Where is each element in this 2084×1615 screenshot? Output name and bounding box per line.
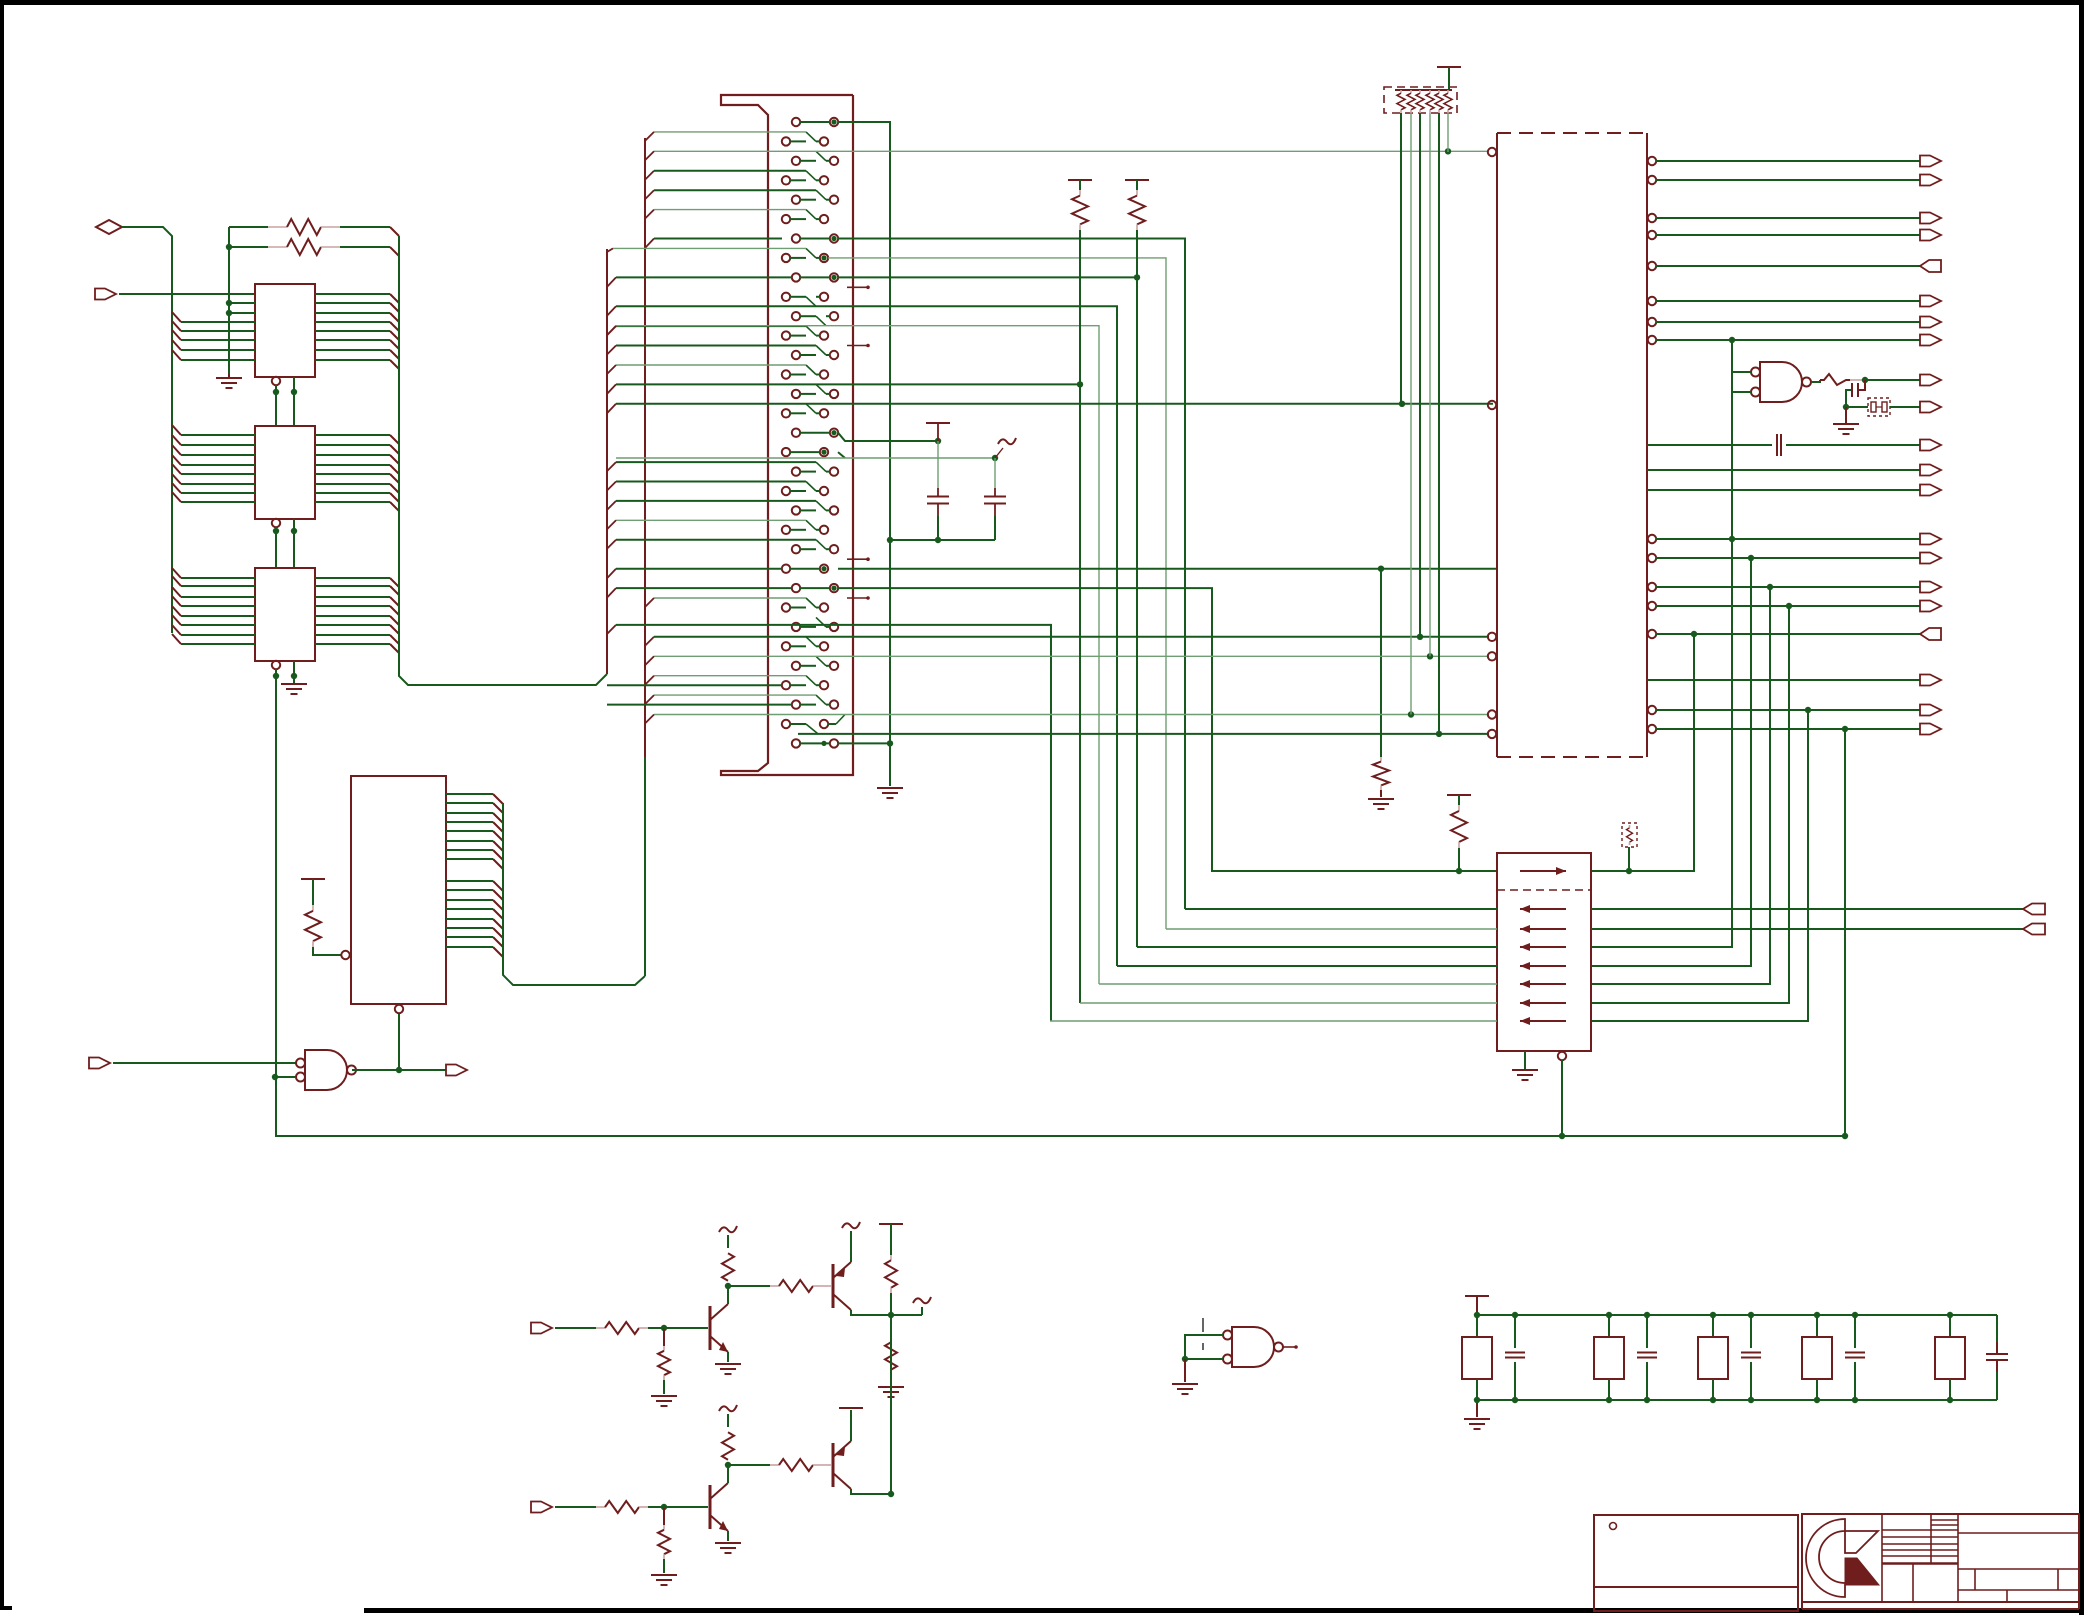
RP1 resistor 2 bbox=[1410, 90, 1412, 93]
keyboard switch S26 bbox=[782, 603, 790, 611]
row 25 straight long wire to buffer top via x1212 bbox=[616, 587, 792, 589]
flag y=180 bbox=[1920, 175, 1941, 186]
flag y=558 bbox=[1920, 553, 1941, 564]
bus entry diagonal bbox=[607, 501, 616, 510]
series resistor bbox=[555, 1327, 596, 1329]
buffer U6 box bbox=[1497, 853, 1591, 1051]
row wire k9 below to x1117 bbox=[616, 306, 1117, 966]
flag y=680 bbox=[1920, 675, 1941, 686]
pull-up resistor R20 bbox=[301, 878, 325, 880]
RP1 line 5 down bbox=[1438, 113, 1440, 734]
flag y=539 bbox=[1920, 534, 1941, 545]
row wire bbox=[654, 694, 816, 696]
bus entry diagonal bbox=[607, 462, 616, 471]
U5 output wire y=322 bbox=[1648, 318, 1656, 326]
wire to NPN base bbox=[664, 1506, 708, 1508]
NAND gate G2 bbox=[1760, 362, 1802, 402]
row wire bbox=[654, 675, 806, 677]
capacitor CB4 bbox=[1854, 1315, 1856, 1348]
no-connect stub C bbox=[847, 558, 868, 560]
RP1 line 2 down bbox=[1410, 113, 1412, 715]
IC U3 bbox=[255, 568, 315, 661]
wire row 33 to vertical x890 bbox=[838, 742, 890, 744]
input flag bbox=[531, 1323, 552, 1334]
row wire KBD (k2) long light to U5 pin bbox=[654, 150, 1489, 152]
vertical x1845 to long bottom wire bbox=[1844, 729, 1846, 1136]
U6 arrow 3 (left) bbox=[1520, 946, 1566, 948]
keyboard switch S20 bbox=[782, 487, 790, 495]
flag CNT bbox=[1920, 375, 1941, 386]
electrolytic capacitor CE2 bbox=[1608, 1315, 1610, 1337]
vertical x1808 to buffer bbox=[1591, 710, 1808, 1021]
keyboard switch S3 bbox=[792, 157, 800, 165]
capacitor C1 bbox=[937, 441, 939, 488]
series resistor bbox=[555, 1506, 596, 1508]
bus entry diagonal bbox=[645, 190, 654, 199]
resistor R_A (top) bbox=[229, 226, 268, 228]
ground bbox=[651, 1395, 677, 1397]
G3 ground bbox=[1184, 1359, 1186, 1382]
keyboard switch S14 bbox=[782, 370, 790, 378]
off-page connector P1 (diamond) bbox=[96, 220, 122, 234]
U3 bottom pins bbox=[272, 661, 280, 669]
keyboard switch S10 bbox=[782, 293, 790, 301]
keyboard switch S11 bbox=[792, 312, 800, 320]
bus entry R_A bbox=[390, 227, 399, 236]
ground bbox=[651, 1574, 677, 1576]
crystal Y1 bbox=[1868, 398, 1890, 416]
ground GND5 bbox=[1845, 407, 1847, 424]
keyboard switch S31 bbox=[792, 700, 800, 708]
electrolytic capacitor CE5 bbox=[1949, 1315, 1951, 1337]
U6 arrow 2 (left) bbox=[1520, 928, 1566, 930]
U4 right pin wires to bus bbox=[446, 793, 493, 795]
IC U2 bbox=[255, 426, 315, 519]
wire NAND G1 input 2 bbox=[272, 1074, 278, 1080]
flag y=490 bbox=[1920, 485, 1941, 496]
RP1 resistor 4 bbox=[1429, 90, 1431, 93]
ground GND1 bbox=[228, 374, 230, 378]
keyboard switch S24 bbox=[782, 565, 790, 573]
bus entry diagonal bbox=[645, 598, 654, 607]
keyboard switch S17 bbox=[792, 429, 800, 437]
flag y=266 bbox=[1920, 260, 1941, 272]
keyboard switch S27 bbox=[792, 623, 800, 631]
flag y=218 bbox=[1920, 213, 1941, 224]
bus entry diagonal bbox=[607, 540, 616, 549]
row wire bbox=[616, 364, 806, 366]
keyboard switch S28 bbox=[782, 642, 790, 650]
U6 dashed divider bbox=[1497, 889, 1591, 891]
collector resistor to power bbox=[727, 1465, 729, 1483]
keyboard switch S2 bbox=[782, 137, 790, 145]
U6 arrow 4 (left) bbox=[1520, 965, 1566, 967]
electrolytic capacitor CE3 bbox=[1712, 1315, 1714, 1337]
keyboard switch S18 bbox=[782, 448, 790, 456]
row wire bbox=[654, 209, 806, 211]
G3 output stub bbox=[1283, 1346, 1296, 1348]
page border left bbox=[0, 0, 4, 1610]
U5 output wire y=587 bbox=[1648, 583, 1656, 591]
RP1 top bus bbox=[1395, 89, 1452, 91]
keyboard switch S9 bbox=[792, 273, 800, 281]
wire row 17 to cap C1 bbox=[838, 433, 938, 441]
row wire bbox=[616, 461, 816, 463]
wire NAND G2 input 2 bbox=[1732, 391, 1751, 393]
capacitor C3 (series) bbox=[1776, 434, 1778, 456]
keyboard switch S5 bbox=[792, 196, 800, 204]
row wire k14 above to R22 junction bbox=[616, 383, 1080, 385]
flag y=235 bbox=[1920, 230, 1941, 241]
coupling resistor to PNP base bbox=[728, 1285, 770, 1287]
power T above cap C1 bbox=[926, 422, 950, 424]
wire to NPN base bbox=[664, 1327, 708, 1329]
U5 output wire y=218 bbox=[1648, 214, 1656, 222]
U6 arrow 7 (left) bbox=[1520, 1020, 1566, 1022]
U5 output wire y=710 bbox=[1648, 706, 1656, 714]
emitter to ground bbox=[727, 1531, 729, 1541]
wire U5 to NAND G2 input 1 bbox=[1732, 340, 1751, 372]
bus entry diagonal bbox=[645, 676, 654, 685]
U6 arrow 1 (left) bbox=[1520, 908, 1566, 910]
vertical x1694 to buffer direction pin bbox=[1591, 634, 1694, 871]
U2 right pin wires to bus bbox=[315, 434, 390, 436]
flag JOYA0 bbox=[2023, 904, 2045, 915]
lower resistor to ground at output node bbox=[890, 1315, 892, 1337]
U5 left pin wires (pull-up rows) bbox=[654, 636, 1489, 638]
keyboard switch S33 bbox=[792, 739, 800, 747]
keyboard switch S7 bbox=[792, 234, 800, 242]
cap bank ground bbox=[1476, 1400, 1478, 1417]
left feed wires for lower switches bbox=[607, 684, 782, 686]
Commodore logo bbox=[1806, 1519, 1845, 1597]
keyboard switch S22 bbox=[782, 526, 790, 534]
PNP emitter to power T bbox=[850, 1410, 852, 1441]
RP1 resistor 3 bbox=[1419, 90, 1421, 93]
flag y=710 bbox=[1920, 705, 1941, 716]
cap bank top rail bbox=[1477, 1314, 1997, 1316]
row wire bbox=[654, 170, 806, 172]
keyboard switch S13 bbox=[792, 351, 800, 359]
RP1 line 1 down bbox=[1400, 113, 1402, 405]
bus entry diagonal bbox=[607, 482, 616, 491]
capacitor C4 bbox=[1859, 380, 1865, 390]
ground bbox=[878, 1386, 904, 1388]
U5 output wire y=606 bbox=[1648, 602, 1656, 610]
page border right bbox=[2079, 0, 2084, 1615]
vertical x1732 (NAND feed / buffer) bbox=[1591, 340, 1732, 947]
wire row 1 to ground via vertical x890 bbox=[838, 122, 890, 786]
vertical x1751 to buffer bbox=[1591, 558, 1751, 966]
U2 bottom pins to U3 bbox=[272, 519, 280, 527]
bus entry diagonal bbox=[645, 171, 654, 180]
resistor pack RP1 dashed box bbox=[1384, 87, 1457, 113]
bus entry diagonal bbox=[607, 326, 616, 335]
bus entry diagonal bbox=[607, 365, 616, 374]
flag y=606 bbox=[1920, 601, 1941, 612]
U5 output wire y=729 bbox=[1648, 725, 1656, 733]
row 8 switch row wire from bus A top corner bbox=[607, 248, 613, 252]
U1 bottom pins to U2 bbox=[272, 377, 280, 385]
bus entry R_B bbox=[390, 247, 399, 256]
U5 output wire y=161 bbox=[1648, 157, 1656, 165]
upper resistor to T at output node bbox=[879, 1223, 903, 1225]
keyboard switch S23 bbox=[792, 545, 800, 553]
row 8 pin wire long to x1166 bbox=[828, 258, 1166, 929]
pull-up resistor R22 bbox=[1068, 179, 1092, 181]
keyboard switch S6 bbox=[782, 215, 790, 223]
input flag bbox=[531, 1502, 552, 1513]
title block right outer box bbox=[1802, 1514, 2079, 1602]
RP1 resistor 1 bbox=[1400, 90, 1402, 93]
emitter to ground bbox=[727, 1352, 729, 1362]
RP1 resistor 5 bbox=[1438, 90, 1440, 93]
U5 output wire y=539 bbox=[1648, 535, 1656, 543]
capacitor CB3 bbox=[1750, 1315, 1752, 1348]
title block left box bbox=[1594, 1515, 1798, 1611]
U5 output wire y=340 bbox=[1648, 336, 1656, 344]
bus entry diagonal bbox=[607, 520, 616, 529]
U1 right pin wires to bus bbox=[315, 293, 390, 295]
row wire bbox=[616, 325, 806, 327]
row wire bbox=[616, 345, 816, 347]
row wire k15 above to U5 pin 2 bbox=[616, 403, 1493, 405]
bus entry diagonal bbox=[645, 695, 654, 704]
keyboard switch S30 bbox=[782, 681, 790, 689]
row wire bbox=[654, 189, 816, 191]
U5 output wire y=235 bbox=[1648, 231, 1656, 239]
title block circle bbox=[1610, 1523, 1617, 1530]
cap bank power T bbox=[1465, 1295, 1489, 1297]
output flag NMI bbox=[446, 1065, 467, 1076]
U6 left input wires bbox=[1185, 908, 1497, 910]
no-connect stub A bbox=[847, 286, 868, 288]
bus from U4 to BUS2 bbox=[503, 803, 645, 985]
vertical x1789 to buffer bbox=[1591, 606, 1789, 1003]
wire from diamond to vertical bus bbox=[122, 227, 172, 633]
long row wire 625 to buffer via x1051 bbox=[616, 625, 1051, 1021]
keyboard connector CN1 outline bbox=[721, 95, 853, 775]
capacitor CB1 bbox=[1514, 1315, 1516, 1348]
ground bbox=[715, 1363, 741, 1365]
junctions on U5 right wires bbox=[1748, 555, 1754, 561]
electrolytic capacitor CE1 bbox=[1476, 1315, 1478, 1337]
flag y=301 bbox=[1920, 296, 1941, 307]
keyboard switch S15 bbox=[792, 390, 800, 398]
keyboard switch S8 bbox=[782, 254, 790, 262]
row 9 straight long wire via R21 x1137 bbox=[616, 276, 792, 278]
resistor R_B bbox=[229, 246, 268, 248]
flag y=634 bbox=[1920, 628, 1941, 640]
row wire bbox=[654, 597, 806, 599]
IC U4 bbox=[351, 776, 446, 1004]
coupling resistor to PNP base bbox=[728, 1464, 770, 1466]
flag y=587 bbox=[1920, 582, 1941, 593]
output node wires circuit1 bbox=[888, 1312, 894, 1318]
U6 enable pin bbox=[1558, 1052, 1566, 1060]
NAND gate G1 bbox=[305, 1050, 347, 1090]
flag y=340 bbox=[1920, 335, 1941, 346]
flag y=445 bbox=[1920, 440, 1941, 451]
power squiggle bbox=[719, 1405, 737, 1411]
PNP collector wire bbox=[851, 1310, 891, 1315]
flag y=161 bbox=[1920, 156, 1941, 167]
U5 output wire y=266 bbox=[1648, 262, 1656, 270]
bus BUS1 bbox=[606, 249, 608, 674]
RP1 resistor 6 bbox=[1447, 90, 1449, 93]
U3 left pin wires from bus bbox=[172, 568, 181, 578]
U5 output wire y=470 bbox=[1647, 469, 1920, 471]
row 24 straight long wire to U5 + R23 bbox=[616, 568, 782, 570]
U4 enable pin bottom bbox=[395, 1005, 403, 1013]
input flag KBD bbox=[95, 289, 116, 300]
flag y=322 bbox=[1920, 317, 1941, 328]
wire joining circuit2 output to node bbox=[890, 1315, 892, 1494]
U1 left pin wires bbox=[229, 302, 255, 304]
no-connect stub D bbox=[847, 597, 868, 599]
row wire k10 below to x1099 bbox=[616, 326, 1099, 984]
RP1 line 6 down bbox=[1447, 113, 1449, 152]
capacitor CB2 bbox=[1646, 1315, 1648, 1348]
power squiggle above cap C2 bbox=[998, 438, 1016, 444]
keyboard switch S19 bbox=[792, 467, 800, 475]
U6 arrow 6 (left) bbox=[1520, 1002, 1566, 1004]
PNP transistor bbox=[832, 1264, 835, 1308]
U6 direction arrow right bbox=[1520, 870, 1566, 872]
left bus vertical right of ICs bbox=[399, 236, 607, 685]
bus entry diagonal bbox=[645, 210, 654, 219]
title block grid bbox=[1881, 1514, 1883, 1602]
keyboard switch S4 bbox=[782, 176, 790, 184]
U6 right output wires to flags bbox=[1591, 908, 2023, 910]
base resistor to ground bbox=[663, 1328, 665, 1346]
capacitor C2 bbox=[994, 458, 996, 488]
RP1 line 4 down bbox=[1429, 113, 1431, 656]
output squiggle bbox=[921, 1307, 923, 1315]
U5 left pin 2 bbox=[1488, 401, 1496, 409]
U5 output wire y=490 bbox=[1647, 489, 1920, 491]
NPN transistor bbox=[709, 1306, 712, 1350]
page border top bbox=[0, 0, 2084, 5]
bus entry diagonal bbox=[607, 346, 616, 355]
bus BUS2 bbox=[644, 138, 646, 757]
RP1 line 3 down bbox=[1419, 113, 1421, 637]
wire ground stub left of U1 bbox=[228, 227, 230, 374]
keyboard switch S25 bbox=[792, 584, 800, 592]
IC U1 bbox=[255, 284, 315, 377]
wire caps to ground rail bbox=[890, 539, 995, 541]
ground GND4 bbox=[1368, 798, 1394, 800]
U5 output wire y=558 bbox=[1648, 554, 1656, 562]
PNP transistor bbox=[832, 1443, 835, 1487]
ground GND3 bbox=[877, 787, 903, 789]
row wire bbox=[616, 539, 816, 541]
capacitor C9 (right end) bbox=[1986, 1353, 2008, 1355]
keyboard switch S21 bbox=[792, 506, 800, 514]
RP1 power T bbox=[1437, 66, 1461, 68]
bus entry diagonal bbox=[645, 132, 654, 141]
NAND gate G3 bbox=[1232, 1327, 1274, 1367]
NAND G1 output wire bbox=[352, 1069, 446, 1071]
cap bank right vertical bbox=[1996, 1315, 1998, 1342]
resistor R23 to ground bbox=[1380, 569, 1382, 757]
flag JOYA1 bbox=[2023, 924, 2045, 935]
vertical x1770 to buffer bbox=[1591, 587, 1770, 984]
G3 input tie wires bbox=[1185, 1335, 1223, 1359]
row wire bbox=[654, 131, 806, 133]
resistor R24 (above buffer) bbox=[1447, 794, 1471, 796]
input flag RESTORE bbox=[89, 1058, 110, 1069]
wire flag to NAND G1 bbox=[113, 1062, 296, 1064]
pull-up resistor R21 bbox=[1125, 179, 1149, 181]
keyboard switch S16 bbox=[782, 409, 790, 417]
PNP collector wire bbox=[851, 1489, 891, 1494]
flag XTAL bbox=[1920, 402, 1941, 413]
flag y=470 bbox=[1920, 465, 1941, 476]
no-connect stub B bbox=[847, 345, 868, 347]
U3 right pin wires to bus bbox=[315, 577, 390, 579]
base resistor to ground bbox=[663, 1507, 665, 1525]
flag y=729 bbox=[1920, 724, 1941, 735]
U5 left pin 1 bbox=[1488, 148, 1496, 156]
ground GND2 bbox=[281, 683, 307, 685]
keyboard switch S12 bbox=[782, 331, 790, 339]
row wire bbox=[616, 519, 806, 521]
NAND G2 output network bbox=[1811, 380, 1820, 382]
wire row 18 to cap C2 bbox=[838, 452, 845, 458]
U5 output wire y=680 bbox=[1647, 679, 1920, 681]
U5 output wire y=634 bbox=[1648, 630, 1656, 638]
U5 left pins lower bbox=[1488, 633, 1496, 641]
U2 left pin wires from bus bbox=[172, 425, 181, 435]
U5 output wire y=301 bbox=[1648, 297, 1656, 305]
jumper/packaged resistor R25 above buffer top pin bbox=[1622, 823, 1637, 847]
page border bottom bbox=[364, 1608, 2084, 1613]
NPN transistor bbox=[709, 1485, 712, 1529]
row wire bbox=[616, 481, 806, 483]
row 7 straight long wire to x1185 bbox=[654, 238, 782, 240]
wire from flag to U1 pin 1 bbox=[119, 293, 255, 295]
keyboard switch S32 bbox=[782, 720, 790, 728]
ground bbox=[715, 1542, 741, 1544]
keyboard switch S1 bbox=[792, 118, 800, 126]
collector resistor to power bbox=[727, 1286, 729, 1304]
U5 output wire y=445 bbox=[1647, 444, 1772, 446]
electrolytic capacitor CE4 bbox=[1816, 1315, 1818, 1337]
ground GND6 bbox=[1524, 1051, 1526, 1070]
keyboard switch S29 bbox=[792, 662, 800, 670]
power squiggle bbox=[719, 1226, 737, 1232]
IC U5 (keyboard encoder, dashed) bbox=[1497, 132, 1647, 134]
U6 arrow 5 (left) bbox=[1520, 983, 1566, 985]
cap bank bottom rail bbox=[1477, 1399, 1997, 1401]
PNP emitter to power squiggle bbox=[850, 1231, 852, 1262]
U5 output wire y=180 bbox=[1648, 176, 1656, 184]
sheet boundary dashes bbox=[1202, 1318, 1204, 1332]
row wire bbox=[616, 500, 816, 502]
